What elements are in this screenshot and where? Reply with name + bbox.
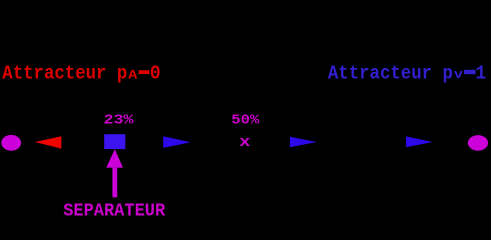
svg-text:Attracteur p: Attracteur p (328, 63, 453, 85)
svg-text:A: A (128, 69, 138, 83)
blue arrow 3 pointing right (406, 136, 433, 147)
svg-text:x: x (239, 134, 250, 151)
magenta up-arrow shaft (112, 168, 117, 198)
magenta up-arrow head (pointing at blue square) (106, 149, 123, 167)
svg-text:SEPARATEUR: SEPARATEUR (63, 202, 165, 218)
svg-text:v: v (454, 68, 464, 82)
svg-text:50%: 50% (231, 113, 260, 129)
svg-text:0: 0 (150, 63, 161, 85)
blue arrow 2 pointing right (290, 137, 317, 147)
label "Attracteur pV=1" (blue, right attractor) (328, 63, 486, 85)
blue arrow 1 pointing right (163, 136, 191, 148)
label "Attracteur pA=0" (red, left attractor) (2, 63, 160, 85)
node attractor A (left magenta ellipse) (1, 135, 21, 151)
svg-text:Attracteur p: Attracteur p (2, 63, 127, 85)
blue square (current state marker at 23%) (104, 134, 125, 149)
node attractor V (right magenta ellipse) (468, 135, 488, 151)
red arrow pointing left toward attractor A (35, 136, 62, 148)
svg-text:1: 1 (475, 63, 486, 85)
svg-text:23%: 23% (104, 113, 135, 129)
